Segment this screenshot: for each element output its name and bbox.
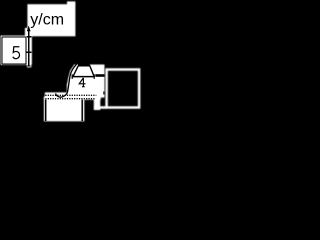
axis end cap — [28, 65, 31, 67]
background — [0, 0, 144, 128]
4 label digit — [79, 78, 85, 87]
container white zone — [44, 97, 84, 122]
5-box border — [2, 37, 26, 64]
tick (5) — [27, 51, 32, 53]
trapezoid — [73, 66, 94, 77]
notch at blob right edge — [103, 92, 104, 95]
svg-text:y/cm: y/cm — [30, 11, 64, 28]
dotted line 2 halo band — [44, 97, 101, 100]
white halo zones — [1, 1, 105, 121]
hanging curve — [56, 64, 77, 97]
5 label digit — [13, 47, 20, 59]
dimension base line — [72, 76, 95, 78]
black ink — [2, 26, 96, 122]
y-axis arrowhead — [27, 26, 31, 32]
trapezoid zone blob — [45, 65, 105, 98]
notch cut-out right of trapezoid base — [95, 74, 104, 77]
dimension end cap right — [93, 74, 95, 79]
dotted level line 2 — [45, 98, 95, 100]
axis end-cap halo — [27, 64, 31, 67]
y/cm box top-right step — [67, 1, 75, 5]
dimension end cap left — [71, 74, 73, 79]
container left wall — [45, 100, 47, 121]
leg halo — [94, 98, 101, 110]
white stroked rectangle — [95, 70, 139, 108]
5 label box white — [1, 36, 27, 65]
arrow halo bump — [25, 28, 28, 36]
container right wall — [81, 100, 83, 121]
axis halo band — [26, 36, 32, 65]
y/cm label box — [27, 4, 75, 36]
shelf extension — [95, 106, 107, 109]
y-axis stem — [28, 31, 30, 67]
hook halo dip — [55, 94, 66, 99]
tick (6) — [26, 36, 31, 38]
fuse strip above trapezoid top edge — [78, 64, 90, 66]
dotted level line 1 — [45, 94, 96, 96]
